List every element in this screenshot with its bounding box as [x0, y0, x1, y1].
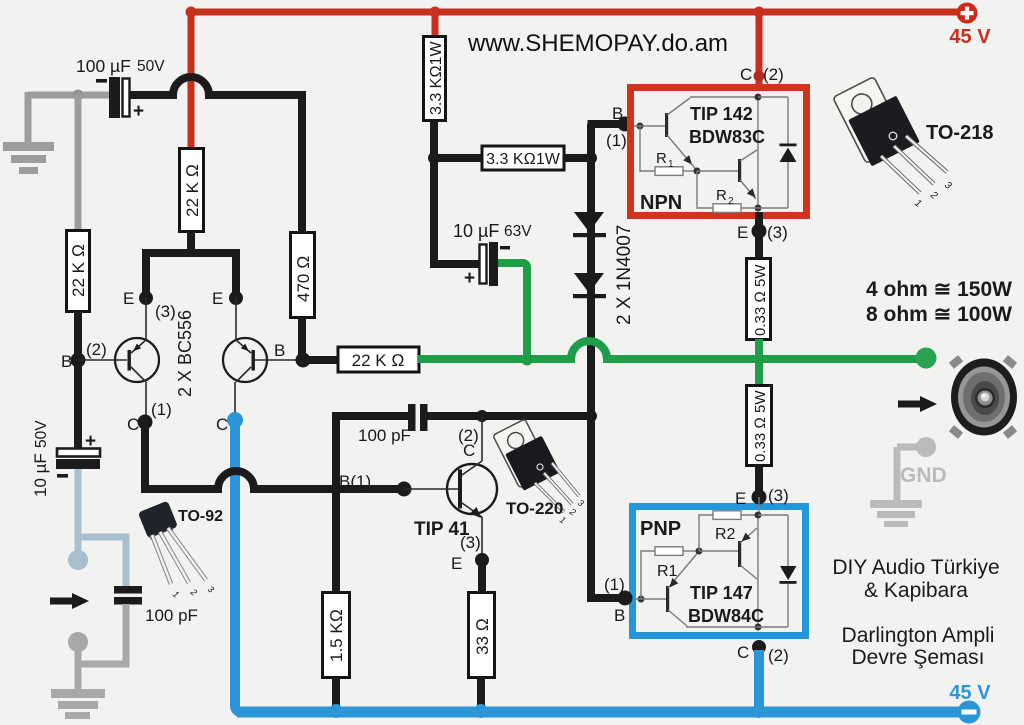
- svg-text:33 Ω: 33 Ω: [473, 618, 492, 655]
- resistor 22K series (horizontal): [338, 347, 419, 372]
- wire 1.5K branch: [332, 489, 340, 592]
- node B of Q2 junction: [296, 353, 311, 368]
- capacitor C1 100uF 50V: [109, 77, 120, 118]
- svg-text:www.SHEMOPAY.do.am: www.SHEMOPAY.do.am: [467, 30, 728, 57]
- svg-text:0.33 Ω 5W: 0.33 Ω 5W: [752, 264, 769, 336]
- ground top-left: [3, 142, 54, 151]
- svg-text:0.33 Ω 5W: 0.33 Ω 5W: [752, 390, 769, 462]
- wire corner to NPN base: [588, 120, 626, 128]
- wire blue C to bottom bus: [754, 650, 764, 712]
- svg-text:10 µF: 10 µF: [453, 221, 499, 241]
- node green output terminal: [916, 348, 937, 369]
- wire C1 of Q1 down and across (VAS rail): [141, 425, 404, 489]
- terminal -45V negative: [958, 701, 981, 724]
- node E of TIP41: [475, 553, 489, 567]
- node gray junction: [73, 90, 84, 101]
- svg-text:C: C: [216, 415, 228, 434]
- wire 22K to emitters tee: [142, 231, 240, 298]
- svg-text:E: E: [737, 223, 748, 242]
- wire collector rail: [757, 97, 759, 208]
- node gray terminal dot: [75, 651, 82, 664]
- darlington module U2 PNP box: [633, 507, 806, 636]
- wire gray down to ground: [25, 92, 32, 143]
- output arrow: [898, 401, 921, 408]
- diode D1 1N4007: [574, 212, 604, 232]
- node B of PNP darlington: [618, 591, 633, 606]
- svg-text:(2): (2): [768, 646, 789, 665]
- node C of Q2 (to blue rail): [227, 412, 243, 428]
- resistor R2: [699, 515, 713, 551]
- wire 22K down through B node to C2 cap: [74, 311, 82, 448]
- svg-text:+: +: [85, 431, 96, 452]
- diode internal: [758, 515, 788, 627]
- svg-text:8 ohm ≅ 100W: 8 ohm ≅ 100W: [866, 303, 1012, 326]
- node mid rail junction: [585, 410, 597, 422]
- wire 0.33R to E: [755, 465, 763, 497]
- wire gray down to 22K input resistor: [75, 95, 82, 232]
- svg-text:B: B: [274, 341, 285, 360]
- wire mid vertical to PNP base: [591, 416, 625, 598]
- wire E to 33R: [478, 560, 486, 592]
- wire 1.5K to bottom bus: [332, 677, 340, 708]
- node R1/base junction: [694, 168, 701, 175]
- svg-text:(3): (3): [155, 302, 176, 321]
- svg-text:BDW83C: BDW83C: [689, 127, 765, 147]
- svg-text:B: B: [614, 606, 625, 625]
- svg-text:(3): (3): [767, 223, 788, 242]
- svg-text:2: 2: [728, 196, 734, 207]
- node 1.5K on blue bus: [329, 704, 343, 718]
- node TIP41 collector tap: [476, 410, 488, 422]
- svg-text:100 µF: 100 µF: [76, 56, 131, 76]
- node top-left corner junction: [186, 7, 197, 18]
- svg-text:TIP 147: TIP 147: [690, 583, 753, 603]
- node C of NPN on red drop: [754, 71, 765, 82]
- resistor R1: [641, 551, 655, 599]
- svg-text:Devre Şeması: Devre Şeması: [851, 646, 984, 669]
- svg-text:B: B: [612, 104, 623, 123]
- svg-text:(3): (3): [460, 533, 481, 552]
- resistor R1: [640, 126, 655, 171]
- wire red drop to 22K bias resistor: [188, 12, 195, 150]
- svg-text:TO-92: TO-92: [178, 508, 223, 525]
- resistor 470R: [291, 233, 315, 318]
- wire slate from C2 cap down: [75, 469, 82, 537]
- terminal +45V positive: [957, 3, 978, 24]
- svg-text:C: C: [463, 441, 475, 460]
- svg-text:R1: R1: [657, 563, 678, 580]
- wire -45V bottom bus (blue): [237, 707, 968, 718]
- svg-text:B(1): B(1): [339, 472, 371, 491]
- wire green output bus: [418, 341, 926, 359]
- svg-text:E: E: [451, 554, 462, 573]
- node C of Q1: [138, 415, 153, 430]
- diode D2 1N4007: [574, 273, 604, 293]
- speaker: [949, 355, 1017, 439]
- svg-text:63V: 63V: [504, 223, 532, 240]
- svg-text:C: C: [740, 65, 752, 84]
- node E of Q2: [229, 291, 243, 305]
- svg-text:R: R: [656, 150, 667, 167]
- svg-text:Darlington Ampli: Darlington Ampli: [842, 624, 995, 647]
- svg-text:E: E: [735, 489, 746, 508]
- transistor package TO-92: [138, 501, 223, 600]
- wire 100pF to collector node and PNP drive: [427, 412, 591, 420]
- transistor Q1 BC556 (left): [115, 338, 159, 382]
- svg-text:4 ohm ≅ 150W: 4 ohm ≅ 150W: [866, 278, 1012, 301]
- svg-text:B: B: [61, 352, 72, 371]
- resistor R2: [697, 171, 713, 208]
- wire from C1 to hump: [129, 77, 302, 232]
- node E of Q1: [139, 291, 153, 305]
- resistor 22K (input, left): [67, 231, 90, 312]
- resistor 0.33R 5W (lower): [747, 386, 772, 466]
- resistor 0.33R 5W (upper): [747, 259, 771, 340]
- node B interior: [637, 123, 644, 130]
- wire green from 10uF cap: [497, 263, 527, 359]
- wire 3.3K down to junction and cap: [434, 120, 480, 264]
- node 1.5K junction: [330, 483, 342, 495]
- wire green bus to 0.33R lower: [755, 359, 763, 385]
- node B interior: [638, 596, 645, 603]
- resistor 3.3K 1W (vertical): [424, 37, 446, 121]
- svg-text:(2): (2): [763, 65, 784, 84]
- wire E to 0.33R: [755, 231, 763, 258]
- wire slate tee to 100pF: [78, 537, 126, 587]
- wire green hump overdraw: [571, 341, 607, 359]
- node B of Q1: [71, 353, 86, 368]
- svg-text:22 K Ω: 22 K Ω: [183, 164, 202, 217]
- svg-text:+: +: [464, 268, 475, 289]
- svg-text:(1): (1): [151, 400, 172, 419]
- svg-text:C: C: [127, 415, 139, 434]
- node top junction at NPN collector drop: [754, 7, 765, 18]
- svg-text:10 µF: 10 µF: [31, 453, 50, 497]
- node 33R on blue bus: [474, 704, 488, 718]
- wire gray from 100pF down: [123, 604, 130, 664]
- wire E lead into box: [758, 497, 760, 512]
- svg-text:TO-218: TO-218: [926, 122, 993, 144]
- svg-text:E: E: [123, 289, 134, 308]
- svg-text:(3): (3): [768, 486, 789, 505]
- svg-text:3.3 KΩ1W: 3.3 KΩ1W: [428, 40, 445, 115]
- svg-text:2 X 1N4007: 2 X 1N4007: [614, 225, 635, 325]
- svg-text:50V: 50V: [137, 58, 165, 75]
- input arrow: [50, 598, 73, 605]
- node E of NPN: [752, 224, 767, 239]
- svg-text:GND: GND: [900, 464, 947, 487]
- svg-text:(1): (1): [606, 131, 627, 150]
- wire to horizontal 3.3K: [434, 154, 482, 162]
- wire 100pF branch up: [336, 416, 408, 489]
- capacitor 100pF (bottom): [114, 586, 142, 594]
- svg-text:BDW84C: BDW84C: [688, 606, 764, 626]
- svg-text:DIY Audio Türkiye: DIY Audio Türkiye: [832, 556, 999, 579]
- svg-text:45 V: 45 V: [949, 682, 991, 704]
- darlington module U1 NPN box: [631, 88, 807, 216]
- svg-text:TO-220: TO-220: [506, 499, 563, 518]
- resistor 33R: [469, 593, 495, 678]
- wire collector rail: [757, 515, 759, 627]
- resistor 22K (mid, from +rail): [180, 149, 204, 232]
- ground speaker return: [870, 437, 947, 527]
- diode internal: [758, 97, 788, 208]
- wire red drop to NPN collector: [756, 12, 763, 85]
- resistor 1.5K: [323, 593, 350, 678]
- svg-text:TIP 142: TIP 142: [690, 104, 753, 124]
- transistor Q NPN output: [697, 170, 738, 172]
- wire gray input top horizontal: [28, 92, 112, 99]
- transistor Q PNP driver: [666, 586, 669, 612]
- wire main mid vertical (diode chain / drive): [587, 124, 595, 598]
- transistor package TO-220: [493, 419, 586, 526]
- node E of PNP: [752, 490, 767, 505]
- svg-text:C: C: [737, 643, 749, 662]
- wire green 0.33R to output: [755, 339, 763, 359]
- wire 3.3K to diode node: [564, 154, 591, 162]
- resistor 3.3K 1W (horizontal): [482, 146, 564, 170]
- node junction 3.3K resistors: [428, 152, 440, 164]
- svg-text:PNP: PNP: [640, 518, 681, 540]
- svg-text:R: R: [716, 187, 727, 204]
- wire blue from Q2 collector down to bottom bus: [235, 420, 241, 712]
- wire 33R to bottom bus: [477, 677, 485, 708]
- svg-text:1: 1: [668, 159, 674, 170]
- node C of PNP: [752, 640, 766, 654]
- svg-text:100 pF: 100 pF: [145, 606, 198, 625]
- node R1 junction: [696, 548, 703, 555]
- svg-text:1.5 KΩ: 1.5 KΩ: [327, 609, 346, 662]
- svg-text:2 X BC556: 2 X BC556: [175, 310, 195, 397]
- wire red drop to 3.3K resistor: [432, 12, 439, 37]
- wire E lead out: [755, 212, 763, 230]
- svg-text:R2: R2: [715, 526, 736, 543]
- svg-text:50V: 50V: [33, 420, 50, 448]
- transistor Q PNP output: [699, 550, 738, 552]
- transistor Q3 TIP41: [447, 464, 497, 514]
- node top junction at 3.3K drop: [430, 7, 441, 18]
- svg-text:& Kapibara: & Kapibara: [864, 579, 968, 602]
- svg-text:470 Ω: 470 Ω: [294, 256, 313, 302]
- capacitor 100pF (top): [408, 404, 416, 431]
- svg-text:(1): (1): [604, 575, 625, 594]
- svg-text:NPN: NPN: [640, 192, 682, 214]
- capacitor C2 10uF 50V: [57, 449, 100, 457]
- svg-text:3.3 KΩ1W: 3.3 KΩ1W: [486, 151, 561, 168]
- wire 470R to base node: [302, 317, 338, 360]
- svg-text:+: +: [133, 101, 144, 122]
- node PNP on blue bus: [752, 704, 766, 718]
- svg-text:22 K Ω: 22 K Ω: [352, 351, 405, 370]
- capacitor C3 10uF 63V: [480, 245, 487, 284]
- svg-text:22 K Ω: 22 K Ω: [69, 244, 88, 297]
- node B of NPN darlington: [618, 117, 633, 132]
- svg-text:45 V: 45 V: [949, 26, 991, 48]
- ground bottom-left: [51, 689, 105, 698]
- wire +45V top bus (red): [191, 9, 966, 16]
- wire gray across to ground leg: [78, 661, 126, 689]
- transistor Q NPN driver: [665, 113, 668, 137]
- node slate terminal dot: [75, 537, 82, 551]
- svg-text:100 pF: 100 pF: [358, 426, 411, 445]
- transistor package TO-218: [833, 77, 994, 210]
- svg-text:(2): (2): [86, 340, 107, 359]
- node B of TIP41: [397, 482, 412, 497]
- transistor Q2 BC556 (right): [223, 338, 267, 382]
- svg-text:E: E: [212, 289, 223, 308]
- node green junction: [522, 355, 533, 366]
- node diode chain top: [585, 152, 597, 164]
